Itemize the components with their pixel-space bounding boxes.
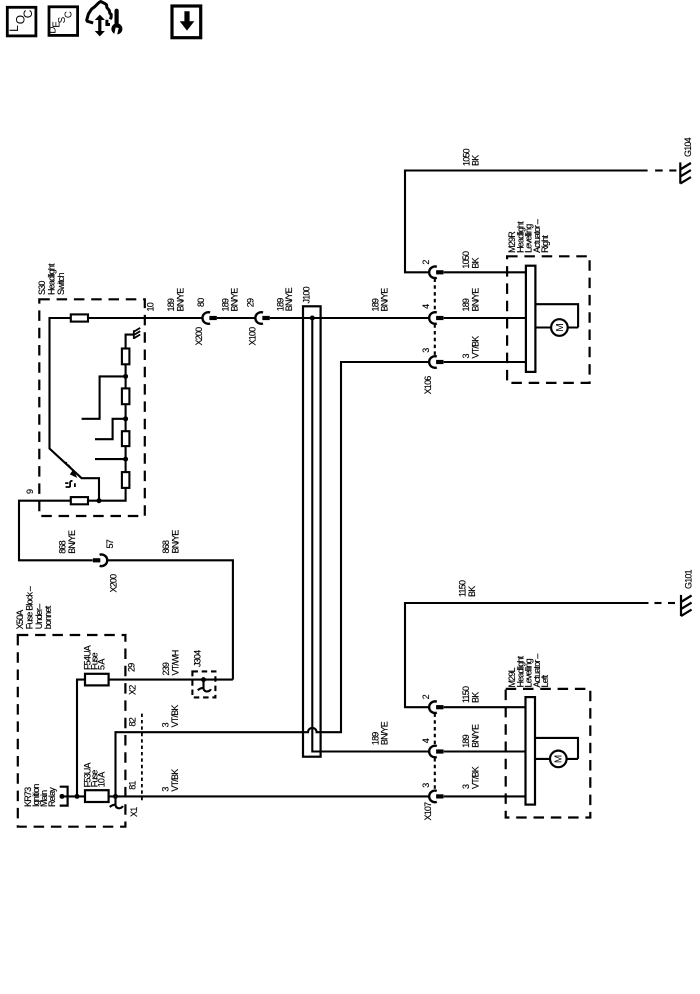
svg-text:10: 10 — [146, 302, 156, 311]
svg-text:S30: S30 — [37, 281, 47, 295]
svg-text:BK: BK — [471, 692, 481, 703]
svg-text:57: 57 — [105, 539, 115, 548]
svg-text:J100: J100 — [302, 286, 312, 303]
svg-text:X106: X106 — [423, 376, 433, 395]
svg-text:BK: BK — [471, 155, 481, 166]
svg-text:VT/BK: VT/BK — [471, 766, 481, 789]
svg-text:BN/YE: BN/YE — [471, 288, 481, 312]
svg-text:3: 3 — [421, 348, 431, 353]
svg-text:BN/YE: BN/YE — [380, 288, 390, 312]
svg-text:29: 29 — [246, 298, 256, 307]
svg-text:82: 82 — [128, 717, 138, 726]
svg-text:80: 80 — [196, 298, 206, 307]
svg-text:BN/YE: BN/YE — [176, 288, 186, 312]
svg-text:M: M — [555, 323, 566, 331]
svg-text:3: 3 — [161, 722, 171, 727]
svg-text:10 A: 10 A — [96, 772, 106, 788]
svg-text:Left: Left — [540, 674, 550, 687]
svg-text:1150: 1150 — [458, 580, 468, 597]
svg-text:1150: 1150 — [461, 686, 471, 703]
svg-text:5 A: 5 A — [96, 659, 106, 670]
svg-text:3: 3 — [461, 354, 471, 359]
svg-text:L: L — [7, 25, 21, 32]
svg-text:4: 4 — [421, 304, 431, 309]
svg-text:X2: X2 — [127, 685, 137, 695]
svg-text:BN/YE: BN/YE — [284, 287, 294, 311]
svg-text:G104: G104 — [683, 137, 693, 157]
svg-text:BN/YE: BN/YE — [380, 721, 390, 745]
svg-text:81: 81 — [128, 781, 138, 790]
svg-text:4: 4 — [421, 738, 431, 743]
svg-text:VT/WH: VT/WH — [171, 650, 181, 675]
svg-text:3: 3 — [461, 784, 471, 789]
svg-text:3: 3 — [161, 787, 171, 792]
svg-text:bonnet: bonnet — [43, 605, 53, 629]
svg-text:VT/BK: VT/BK — [471, 336, 481, 359]
svg-text:BN/YE: BN/YE — [67, 530, 77, 554]
svg-text:239: 239 — [161, 662, 171, 675]
svg-text:29: 29 — [127, 663, 137, 672]
svg-text:Switch: Switch — [56, 272, 66, 295]
svg-text:X100: X100 — [248, 327, 258, 346]
svg-text:J304: J304 — [193, 650, 203, 667]
svg-text:X107: X107 — [423, 802, 433, 821]
svg-text:189: 189 — [461, 734, 471, 747]
svg-text:3: 3 — [421, 783, 431, 788]
svg-text:VT/BK: VT/BK — [170, 769, 180, 792]
svg-text:Right: Right — [540, 235, 550, 253]
svg-text:BK: BK — [467, 586, 477, 597]
svg-text:X200: X200 — [194, 327, 204, 346]
svg-text:VT/BK: VT/BK — [170, 705, 180, 728]
svg-text:189: 189 — [166, 298, 176, 311]
svg-text:2: 2 — [421, 694, 431, 699]
svg-text:BN/YE: BN/YE — [230, 288, 240, 312]
svg-text:BK: BK — [471, 257, 481, 268]
svg-text:Headlight: Headlight — [47, 263, 57, 295]
svg-text:868: 868 — [58, 540, 68, 553]
svg-text:BN/YE: BN/YE — [471, 724, 481, 748]
svg-text:C: C — [21, 9, 35, 18]
svg-text:9: 9 — [25, 489, 35, 494]
svg-text:X200: X200 — [109, 574, 119, 593]
svg-text:868: 868 — [161, 540, 171, 553]
svg-text:Relay: Relay — [47, 787, 57, 807]
svg-text:2: 2 — [421, 260, 431, 265]
svg-text:BN/YE: BN/YE — [171, 530, 181, 554]
svg-text:M: M — [554, 755, 565, 763]
svg-text:189: 189 — [461, 298, 471, 311]
svg-text:1050: 1050 — [461, 251, 471, 269]
svg-text:C: C — [64, 11, 75, 18]
svg-text:X1: X1 — [129, 807, 139, 817]
svg-text:G101: G101 — [684, 569, 694, 589]
